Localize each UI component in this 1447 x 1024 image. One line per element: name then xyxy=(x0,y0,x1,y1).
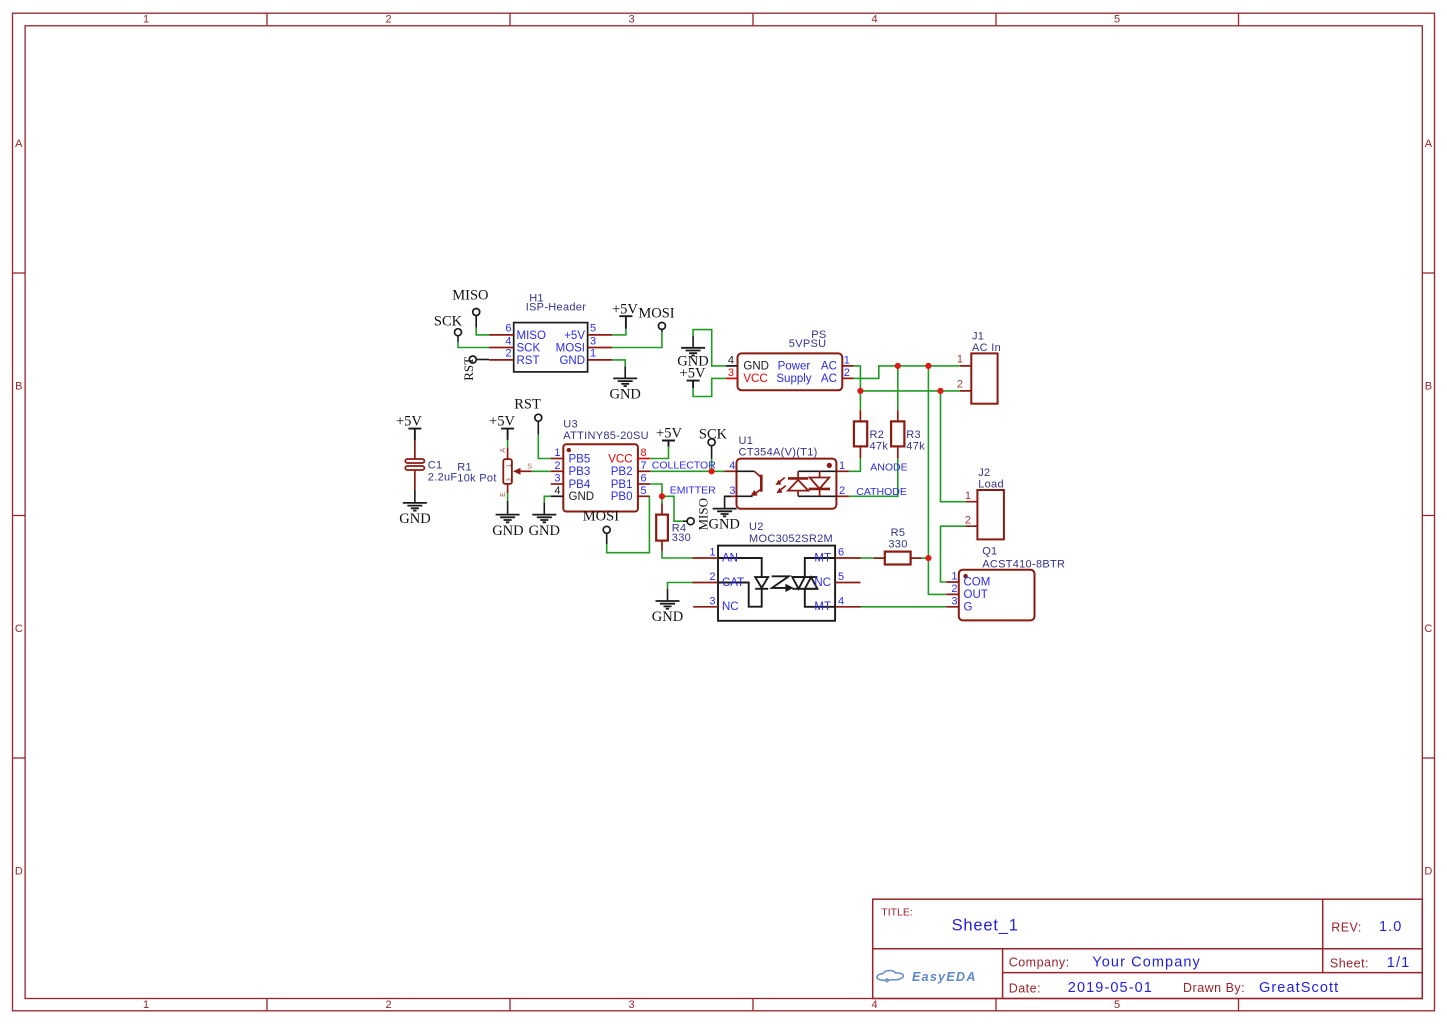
svg-text:R5: R5 xyxy=(891,527,906,539)
svg-text:3: 3 xyxy=(628,14,634,26)
svg-text:D: D xyxy=(15,865,23,877)
phototransistor inside U1 xyxy=(737,471,755,496)
wire H1 pin5 to +5V xyxy=(612,329,626,335)
triac inside U2 xyxy=(792,558,835,607)
svg-text:2.2uF: 2.2uF xyxy=(428,472,458,484)
wire AC2 rail to J2 pin1 xyxy=(941,391,966,502)
wire PB1 node to R4 top xyxy=(661,496,663,503)
svg-text:MT: MT xyxy=(814,601,831,613)
svg-text:Q1: Q1 xyxy=(982,546,997,558)
svg-text:4: 4 xyxy=(728,354,734,366)
back-to-back LED inside U1 xyxy=(798,471,836,496)
wire PS pin3 to +5V flag xyxy=(693,378,726,396)
svg-text:GND: GND xyxy=(708,516,739,532)
svg-text:3: 3 xyxy=(728,367,734,379)
svg-text:U2: U2 xyxy=(749,521,764,533)
svg-text:RST: RST xyxy=(461,357,476,381)
ground GND (U2 pin2) xyxy=(652,589,683,625)
resistor R4 330 xyxy=(656,503,691,551)
svg-text:B: B xyxy=(1425,380,1432,392)
power flag +5V (U3 VCC) xyxy=(656,426,682,447)
svg-text:10k Pot: 10k Pot xyxy=(457,472,496,484)
wire R4 bottom to U2 pin1 xyxy=(662,551,693,558)
junction AC2/J2 xyxy=(937,388,943,394)
wire R1 wiper to U3 pin2 xyxy=(532,470,551,472)
svg-text:PB5: PB5 xyxy=(569,453,591,465)
svg-text:VCC: VCC xyxy=(743,373,767,385)
svg-text:SCK: SCK xyxy=(517,343,541,355)
svg-text:REV:: REV: xyxy=(1331,921,1362,935)
connector J1 AC In xyxy=(957,330,1001,403)
svg-text:CT354A(V)(T1): CT354A(V)(T1) xyxy=(739,447,818,459)
svg-text:4: 4 xyxy=(505,335,511,347)
svg-text:GND: GND xyxy=(559,355,585,367)
wire SCK port to COLLECTOR net xyxy=(711,459,713,472)
svg-text:GND: GND xyxy=(569,491,595,503)
svg-text:MISO: MISO xyxy=(452,288,488,304)
wire +5V flag to R1 top xyxy=(507,440,509,447)
svg-text:GND: GND xyxy=(492,523,523,539)
svg-text:2: 2 xyxy=(965,515,971,527)
svg-text:330: 330 xyxy=(888,539,907,551)
svg-text:4: 4 xyxy=(838,595,844,607)
wire RST port to U3 pin1 xyxy=(538,434,551,458)
power flag +5V (C1) xyxy=(396,414,422,441)
svg-text:2: 2 xyxy=(839,485,845,497)
svg-text:PB1: PB1 xyxy=(611,479,633,491)
svg-text:3: 3 xyxy=(729,485,735,497)
port MISO (top) xyxy=(452,288,488,328)
resistor R5 330 xyxy=(873,527,921,564)
ground GND (U3 pin4) xyxy=(529,503,560,539)
svg-text:COLLECTOR: COLLECTOR xyxy=(652,459,716,471)
svg-text:2: 2 xyxy=(957,378,963,390)
svg-text:47k: 47k xyxy=(870,440,889,452)
svg-text:R2: R2 xyxy=(870,429,885,441)
svg-text:J2: J2 xyxy=(978,467,990,479)
svg-text:Your Company: Your Company xyxy=(1092,954,1201,970)
svg-text:5: 5 xyxy=(590,323,596,335)
svg-text:R3: R3 xyxy=(906,429,921,441)
wire PS pin4 to GND flag xyxy=(693,330,726,366)
wire U3 pin4 to GND xyxy=(544,496,551,502)
svg-text:3: 3 xyxy=(554,473,560,485)
svg-text:3: 3 xyxy=(709,595,715,607)
junction AC2/R2 xyxy=(857,388,863,394)
svg-text:4: 4 xyxy=(554,485,560,497)
ground GND (PS pin4) xyxy=(677,336,708,370)
svg-text:GND: GND xyxy=(743,360,769,372)
svg-text:2019-05-01: 2019-05-01 xyxy=(1068,980,1153,996)
svg-text:Drawn By:: Drawn By: xyxy=(1183,981,1245,995)
svg-text:6: 6 xyxy=(838,547,844,559)
wire R3 top to AC1 rail xyxy=(897,366,899,410)
svg-text:MOSI: MOSI xyxy=(638,305,674,321)
svg-text:GND: GND xyxy=(399,511,430,527)
svg-text:ATTINY85-20SU: ATTINY85-20SU xyxy=(563,430,649,442)
svg-text:SCK: SCK xyxy=(699,427,728,443)
svg-text:Supply: Supply xyxy=(776,373,811,385)
power flag +5V (H1 pin5) xyxy=(612,301,638,328)
SCHEMATIC xyxy=(396,288,1065,625)
svg-text:4: 4 xyxy=(871,999,877,1011)
svg-text:GreatScott: GreatScott xyxy=(1259,980,1339,996)
wire PS pin2 up to AC1 rail xyxy=(854,366,960,379)
wire U3 pin6 to PB1 node xyxy=(650,484,662,496)
svg-text:PB4: PB4 xyxy=(569,479,591,491)
svg-text:E: E xyxy=(500,492,507,497)
svg-text:GND: GND xyxy=(652,609,683,625)
svg-text:NC: NC xyxy=(722,601,739,613)
light arrow inside U2 xyxy=(772,576,793,591)
triac Q1 ACST410-8BTR xyxy=(946,546,1065,621)
power flag +5V (R1) xyxy=(489,414,515,440)
junction AC1/R3 xyxy=(895,363,901,369)
svg-text:1: 1 xyxy=(709,547,715,559)
svg-text:MOSI: MOSI xyxy=(556,343,585,355)
TITLEBLOCK xyxy=(873,899,1423,998)
wire AC2 rail to J1 pin2 xyxy=(860,390,960,392)
svg-text:2: 2 xyxy=(505,348,511,360)
svg-text:1: 1 xyxy=(965,490,971,502)
optocoupler U1 CT354A(V)(T1) xyxy=(725,435,849,509)
wire R3 bottom to U1 CATHODE pin xyxy=(849,458,898,496)
svg-text:AC: AC xyxy=(821,373,837,385)
wire U3 pin8 to +5V xyxy=(650,447,669,459)
svg-text:SCK: SCK xyxy=(434,314,463,330)
wire PS pin1 down to node AC2 xyxy=(854,366,861,410)
svg-text:C: C xyxy=(15,623,23,635)
wire COLLECTOR net U3 pin7 to U1 pin4 xyxy=(650,470,725,472)
svg-text:+5V: +5V xyxy=(396,414,422,430)
svg-text:U3: U3 xyxy=(563,418,578,430)
svg-text:Company:: Company: xyxy=(1009,955,1070,969)
svg-text:VCC: VCC xyxy=(608,453,632,465)
svg-text:EasyEDA: EasyEDA xyxy=(912,970,977,984)
wire AC1 rail down to R5 node xyxy=(927,366,929,558)
header H1 ISP-Header xyxy=(489,293,612,372)
svg-text:MT: MT xyxy=(814,553,831,565)
svg-text:ANODE: ANODE xyxy=(870,461,907,473)
port MISO (right of R4) xyxy=(683,498,711,531)
port RST (left) xyxy=(461,356,489,381)
svg-text:A: A xyxy=(1425,138,1433,150)
wire R2 bottom to U1 ANODE pin xyxy=(849,458,861,471)
svg-text:1: 1 xyxy=(957,353,963,365)
svg-text:+5V: +5V xyxy=(680,366,706,382)
svg-text:RST: RST xyxy=(514,396,541,412)
svg-text:AC In: AC In xyxy=(972,342,1001,354)
wire J2 pin2 to Q1 COM xyxy=(941,526,966,582)
svg-text:Sheet_1: Sheet_1 xyxy=(952,917,1019,935)
power-supply PS 5VPSU xyxy=(726,329,854,390)
svg-text:5: 5 xyxy=(641,485,647,497)
svg-text:1: 1 xyxy=(839,460,845,472)
svg-text:MOSI: MOSI xyxy=(583,508,619,524)
svg-text:1: 1 xyxy=(554,447,560,459)
svg-text:4: 4 xyxy=(729,460,735,472)
potentiometer R1 10k Pot xyxy=(457,447,532,497)
svg-text:7: 7 xyxy=(641,460,647,472)
svg-text:CAT: CAT xyxy=(722,577,744,589)
junction AC1 drop xyxy=(925,363,931,369)
svg-text:EMITTER: EMITTER xyxy=(670,485,716,497)
svg-text:MOC3052SR2M: MOC3052SR2M xyxy=(749,533,833,545)
svg-text:RST: RST xyxy=(517,355,540,367)
svg-text:+5V: +5V xyxy=(612,301,638,317)
svg-text:Load: Load xyxy=(978,479,1004,491)
wire SCK port to H1 pin4 xyxy=(458,342,489,348)
svg-text:1: 1 xyxy=(590,348,596,360)
svg-text:1: 1 xyxy=(143,999,149,1011)
svg-text:GND: GND xyxy=(609,386,640,402)
wire H1 pin1 to GND xyxy=(612,360,625,367)
svg-text:S: S xyxy=(527,464,532,471)
junction PB1/R4/MISO xyxy=(659,493,665,499)
junction R5/Q1 xyxy=(925,555,931,561)
ground GND (H1 pin1) xyxy=(609,366,640,402)
wire PB1 node to MISO port xyxy=(662,496,683,521)
mcu U3 ATTINY85-20SU xyxy=(551,418,651,511)
ground GND (C1) xyxy=(399,490,430,527)
LED inside U2 xyxy=(718,558,768,607)
svg-text:PB2: PB2 xyxy=(611,466,633,478)
svg-text:3: 3 xyxy=(951,595,957,607)
svg-text:1: 1 xyxy=(844,354,850,366)
svg-text:5VPSU: 5VPSU xyxy=(789,338,827,350)
svg-text:5: 5 xyxy=(1114,14,1120,26)
svg-text:MISO: MISO xyxy=(517,330,546,342)
easyeda logo xyxy=(877,970,977,984)
svg-text:1: 1 xyxy=(143,14,149,26)
wire U2 pin6 to R5 xyxy=(861,557,873,559)
svg-text:2: 2 xyxy=(844,367,850,379)
optotriac U2 MOC3052SR2M xyxy=(693,521,861,621)
port MOSI (right of H1) xyxy=(638,305,674,332)
svg-text:3: 3 xyxy=(628,999,634,1011)
svg-text:1.0: 1.0 xyxy=(1379,919,1402,935)
resistor R3 47k xyxy=(891,410,925,458)
svg-text:6: 6 xyxy=(641,473,647,485)
ground GND (R1) xyxy=(492,501,523,539)
svg-text:1: 1 xyxy=(951,571,957,583)
capacitor C1 2.2uF xyxy=(405,441,457,490)
svg-text:A: A xyxy=(15,138,23,150)
svg-text:NC: NC xyxy=(814,577,831,589)
junction SCK/COLLECTOR xyxy=(709,468,715,474)
wire R5 to node xyxy=(922,557,929,559)
svg-text:COM: COM xyxy=(964,577,991,589)
svg-text:Date:: Date: xyxy=(1009,981,1041,995)
svg-text:5: 5 xyxy=(1114,999,1120,1011)
svg-text:U1: U1 xyxy=(739,435,754,447)
svg-text:47k: 47k xyxy=(906,440,925,452)
port SCK (above U1) xyxy=(699,427,728,459)
svg-text:+5V: +5V xyxy=(656,426,682,442)
svg-text:J1: J1 xyxy=(972,330,984,342)
port MOSI (below U3) xyxy=(583,508,619,544)
svg-text:OUT: OUT xyxy=(964,589,988,601)
svg-text:2: 2 xyxy=(385,999,391,1011)
svg-text:5: 5 xyxy=(838,571,844,583)
svg-text:CATHODE: CATHODE xyxy=(856,486,907,498)
svg-text:GND: GND xyxy=(529,523,560,539)
svg-text:D: D xyxy=(1424,865,1432,877)
wire U2 pin2 to GND xyxy=(668,583,693,589)
wire R5 node to Q1 OUT xyxy=(928,558,946,594)
svg-text:C1: C1 xyxy=(428,459,443,471)
svg-text:AN: AN xyxy=(722,553,738,565)
svg-text:+5V: +5V xyxy=(564,330,585,342)
ground GND (U1 pin3 / EMITTER) xyxy=(708,496,739,532)
wire U3 pin5 to MOSI port xyxy=(607,496,650,552)
wire U2 pin4 to Q1 gate xyxy=(861,606,946,608)
svg-text:2: 2 xyxy=(554,460,560,472)
svg-text:+5V: +5V xyxy=(489,414,515,430)
svg-text:2: 2 xyxy=(951,583,957,595)
svg-text:PB0: PB0 xyxy=(611,491,633,503)
wire H1 pin3 to MOSI port xyxy=(612,332,662,348)
port RST (above U3) xyxy=(514,396,542,434)
svg-text:4: 4 xyxy=(871,14,877,26)
svg-text:C: C xyxy=(1424,623,1432,635)
svg-text:G: G xyxy=(964,601,973,613)
svg-text:AC: AC xyxy=(821,360,837,372)
svg-text:8: 8 xyxy=(641,447,647,459)
connector J2 Load xyxy=(965,467,1004,540)
svg-text:ISP-Header: ISP-Header xyxy=(526,302,587,314)
svg-text:3: 3 xyxy=(590,335,596,347)
wire R1 bottom to GND xyxy=(507,493,509,501)
svg-text:Sheet:: Sheet: xyxy=(1330,956,1369,970)
svg-text:6: 6 xyxy=(505,323,511,335)
wire MISO port to H1 pin6 xyxy=(476,328,489,335)
svg-text:PB3: PB3 xyxy=(569,466,591,478)
svg-text:B: B xyxy=(15,380,22,392)
svg-text:2: 2 xyxy=(385,14,391,26)
svg-text:2: 2 xyxy=(709,571,715,583)
resistor R2 47k xyxy=(854,410,888,458)
port SCK (top) xyxy=(434,314,463,342)
svg-text:1/1: 1/1 xyxy=(1387,955,1410,971)
svg-text:ACST410-8BTR: ACST410-8BTR xyxy=(982,558,1065,570)
svg-text:330: 330 xyxy=(672,532,691,544)
power flag +5V (PS pin3) xyxy=(680,366,706,388)
svg-text:TITLE:: TITLE: xyxy=(881,906,913,918)
svg-text:Power: Power xyxy=(778,360,811,372)
svg-text:A: A xyxy=(500,448,507,453)
